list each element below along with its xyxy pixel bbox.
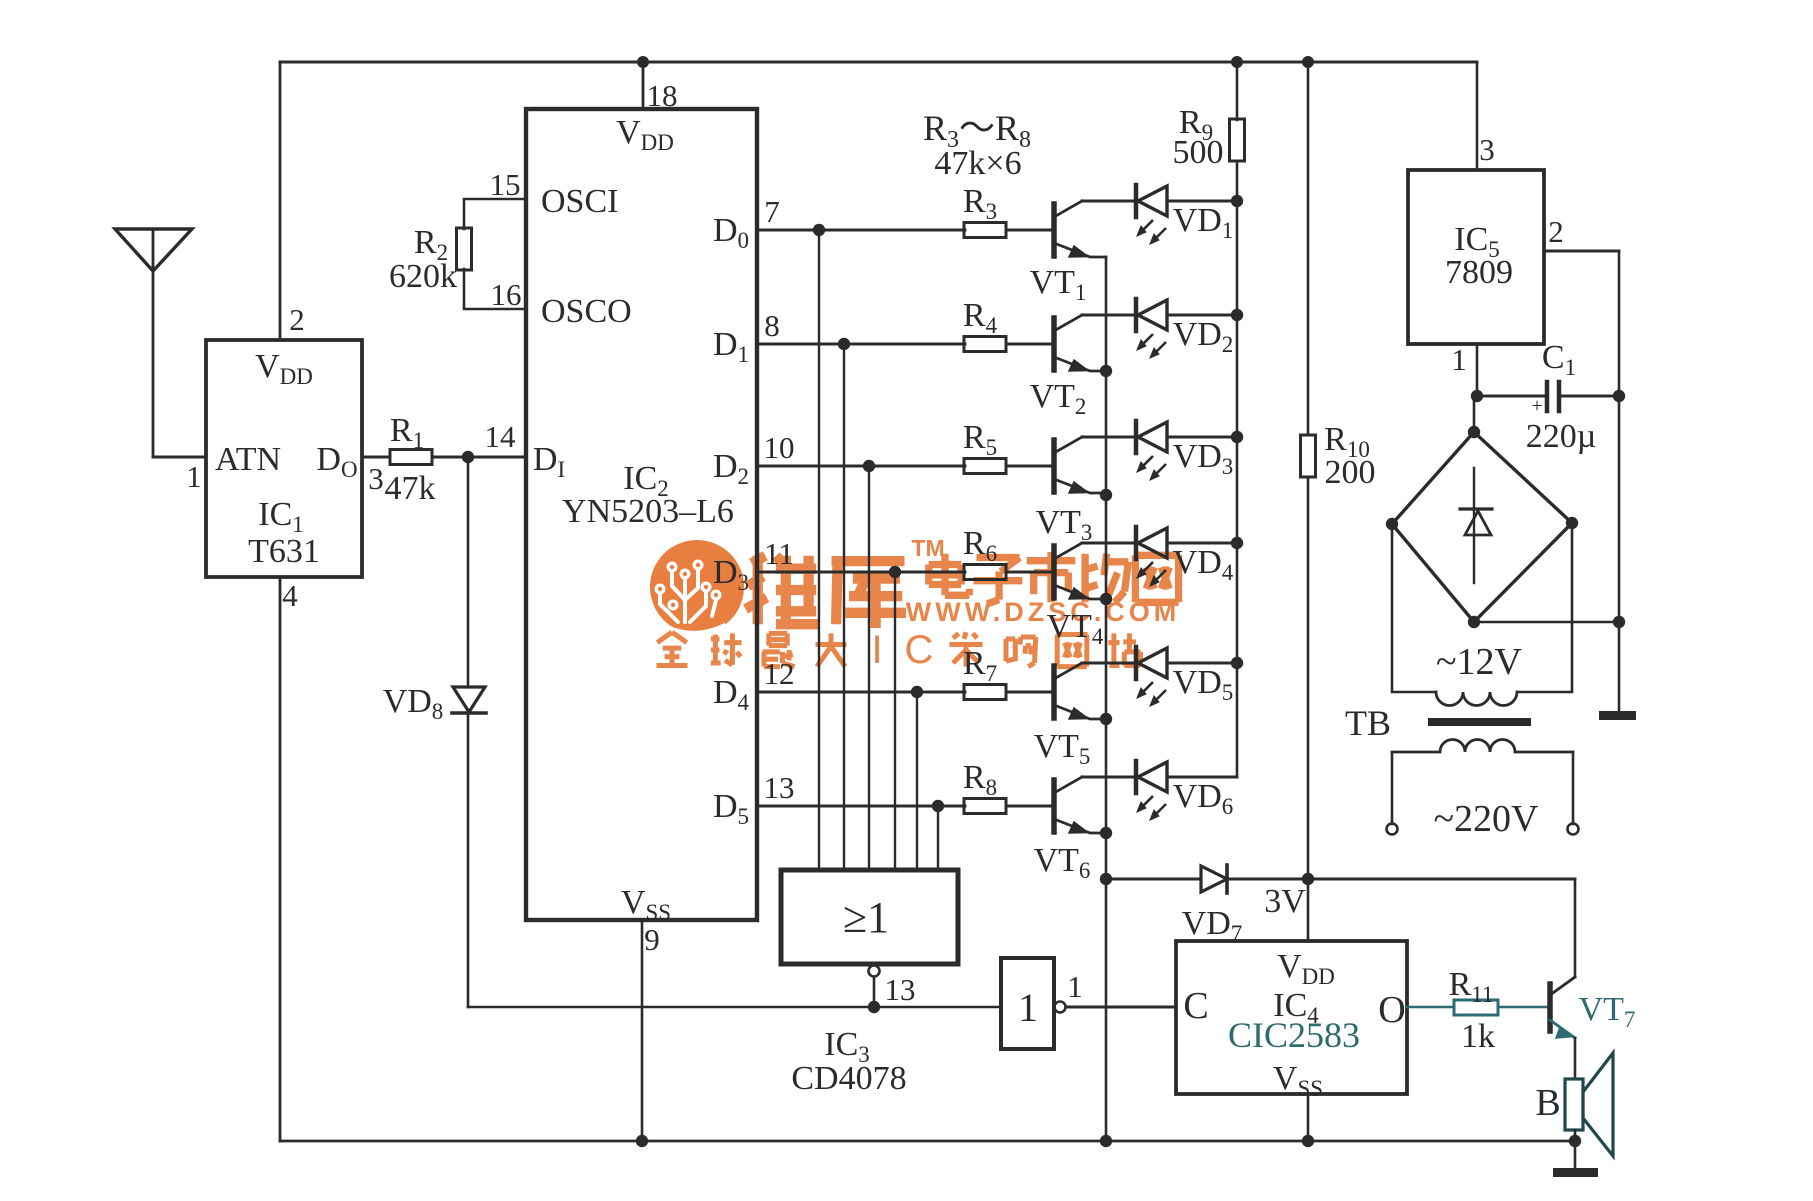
- node IC5 pin1 / C1: [1471, 390, 1483, 402]
- LED VD2: [1082, 314, 1133, 317]
- svg-text:18: 18: [647, 78, 678, 113]
- wire OSCI loop: [464, 199, 526, 309]
- IC1 T631 box: [206, 340, 362, 577]
- svg-text:WWW.DZSC.COM: WWW.DZSC.COM: [906, 597, 1180, 627]
- wire D4 to R7: [757, 691, 965, 694]
- wire speaker to bottom rail and ground: [1574, 1130, 1577, 1168]
- node C1 right / right rail: [1613, 390, 1625, 402]
- primary terminal right: [1568, 824, 1579, 835]
- diode VD8: [453, 687, 485, 712]
- transformer secondary coil ~12V: [1436, 692, 1517, 706]
- svg-text:16: 16: [491, 277, 522, 312]
- svg-text:220µ: 220µ: [1526, 418, 1597, 455]
- wire R4 to VT2 base: [1006, 343, 1052, 346]
- capacitor C1: [1477, 395, 1545, 398]
- wire VD8 to gate input line: [467, 713, 470, 1007]
- svg-text:3: 3: [1479, 132, 1495, 167]
- wire VD7 to VT7 collector net: [1227, 878, 1575, 881]
- svg-text:13: 13: [764, 770, 795, 805]
- svg-text:OSCI: OSCI: [541, 183, 618, 220]
- node bottom rail / emitter rail: [1100, 1135, 1112, 1147]
- node ground rail: [1613, 616, 1625, 628]
- svg-text:C: C: [905, 628, 934, 672]
- wire R10 to 3V line: [1307, 477, 1310, 879]
- LED VD5: [1082, 662, 1133, 665]
- svg-text:CD4078: CD4078: [791, 1060, 906, 1097]
- svg-text:~220V: ~220V: [1433, 798, 1539, 840]
- wire IC1 pin2 VDD riser: [279, 62, 282, 340]
- wire R7 to VT5 base: [1006, 691, 1052, 694]
- wire D4 drop to OR gate: [916, 692, 918, 870]
- svg-text:YN5203–L6: YN5203–L6: [562, 493, 734, 530]
- svg-text:~12V: ~12V: [1436, 641, 1523, 683]
- wire IC4 O to R11: [1407, 1006, 1454, 1009]
- svg-text:15: 15: [490, 167, 521, 202]
- svg-text:C: C: [1183, 985, 1208, 1027]
- node bridge top: [1468, 426, 1480, 438]
- wire R1 to IC2 D_I pin 14: [432, 456, 526, 459]
- transformer core: [1428, 718, 1531, 726]
- svg-text:+: +: [1531, 395, 1542, 417]
- transistor VT1: [1051, 204, 1057, 256]
- wire D5 drop to OR gate: [937, 806, 939, 870]
- resistor R11: [1454, 1000, 1498, 1015]
- resistor R9: [1230, 119, 1245, 161]
- wire right rail: [1618, 251, 1621, 712]
- svg-text:ATN: ATN: [215, 441, 281, 478]
- wire D0 to R3: [757, 229, 965, 232]
- wire D3 to R6: [757, 571, 965, 574]
- wire D1 to R4: [757, 343, 965, 346]
- svg-text:47k×6: 47k×6: [934, 145, 1021, 182]
- svg-text:10: 10: [764, 430, 795, 465]
- node R9 rail / LED: [1231, 537, 1243, 549]
- node R9 rail / LED: [1231, 309, 1243, 321]
- emitter rail wire: [1105, 257, 1108, 1141]
- wire inverter output to IC4 C: [1066, 1006, 1176, 1009]
- wire VT7 collector riser: [1574, 879, 1577, 977]
- svg-text:7809: 7809: [1445, 254, 1513, 291]
- svg-text:14: 14: [485, 419, 517, 454]
- transistor VT5: [1051, 666, 1057, 718]
- node emitter rail: [1100, 593, 1112, 605]
- node top rail / IC2 pin 18: [637, 56, 649, 68]
- svg-text:3: 3: [368, 461, 384, 496]
- node D2 branch: [863, 460, 875, 472]
- inverter gate box: [1001, 958, 1054, 1049]
- svg-text:TM: TM: [911, 535, 944, 561]
- svg-text:3V: 3V: [1264, 883, 1306, 920]
- wire R8 to VT6 base: [1006, 805, 1052, 808]
- OR gate output bubble: [869, 966, 880, 977]
- node top rail / R9: [1231, 56, 1243, 68]
- svg-text:CIC2583: CIC2583: [1228, 1015, 1360, 1055]
- resistor R8: [964, 799, 1006, 814]
- LED VD1: [1082, 200, 1133, 203]
- wire D0 drop to OR gate: [818, 230, 820, 870]
- node D1 branch: [838, 338, 850, 350]
- resistor R5: [964, 459, 1006, 474]
- svg-text:1k: 1k: [1461, 1018, 1495, 1055]
- node R9 rail / LED: [1231, 657, 1243, 669]
- svg-text:200: 200: [1325, 454, 1376, 491]
- node R9 rail / LED: [1231, 431, 1243, 443]
- node bridge right: [1566, 517, 1578, 529]
- transistor VT6: [1051, 780, 1057, 832]
- node bridge bottom: [1468, 616, 1480, 628]
- wire IC2 pin9 VSS to bottom rail: [641, 920, 644, 1141]
- wire IC5 pin3 stub: [1476, 62, 1479, 170]
- node bottom rail / IC2 VSS: [636, 1135, 648, 1147]
- svg-text:T631: T631: [248, 533, 320, 570]
- svg-text:47k: 47k: [385, 470, 436, 507]
- svg-text:2: 2: [289, 302, 305, 337]
- node bottom rail / speaker: [1569, 1135, 1581, 1147]
- bridge internal diode: [1473, 468, 1475, 583]
- wire VD8 branch down: [467, 457, 470, 686]
- svg-text:4: 4: [282, 578, 298, 613]
- transformer primary lead left: [1391, 752, 1394, 824]
- watermark logo and text: [657, 535, 1181, 672]
- OR gate IC3 CD4078 box: [781, 870, 958, 964]
- wire R5 to VT3 base: [1006, 465, 1052, 468]
- IC5 7809 box: [1408, 170, 1544, 344]
- wire D5 to R8: [757, 805, 965, 808]
- LED VD6: [1082, 776, 1133, 779]
- node R1/VD8 junction: [462, 451, 474, 463]
- svg-text:O: O: [1378, 989, 1405, 1031]
- node D4 branch: [911, 686, 923, 698]
- ground bottom right: [1553, 1168, 1598, 1177]
- wire antenna to IC1 pin 1: [153, 456, 206, 459]
- wire IC1 DO to R1: [362, 456, 390, 459]
- resistor R3: [964, 223, 1006, 238]
- transformer primary lead right: [1572, 752, 1575, 824]
- IC2 YN5203-L6 box: [526, 109, 757, 920]
- wire IC1 pin4 to bottom rail: [279, 577, 282, 1141]
- wire R9 to LED anodes: [1236, 161, 1239, 777]
- node emitter rail: [1100, 873, 1112, 885]
- svg-text:1: 1: [186, 459, 202, 494]
- transformer primary coil ~220V: [1392, 740, 1573, 753]
- node R9 rail / LED: [1231, 195, 1243, 207]
- wire VT7 emitter to speaker: [1574, 1038, 1577, 1079]
- node emitter rail: [1100, 365, 1112, 377]
- svg-text:1: 1: [1451, 342, 1467, 377]
- resistor R10: [1301, 435, 1316, 477]
- svg-text:1: 1: [1018, 985, 1038, 1030]
- wire R6 to VT4 base: [1006, 571, 1052, 574]
- svg-text:TB: TB: [1345, 703, 1391, 743]
- resistor R2: [457, 228, 472, 270]
- wire top VDD rail: [280, 61, 1477, 64]
- svg-text:500: 500: [1173, 134, 1224, 171]
- svg-text:9: 9: [644, 922, 660, 957]
- wire OR output stem: [873, 977, 876, 1007]
- resistor R6: [964, 565, 1006, 580]
- wire IC4 VDD stub: [1307, 879, 1310, 941]
- transistor VT7: [1547, 984, 1553, 1031]
- bridge rectifier diamond: [1392, 432, 1572, 622]
- resistor R4: [964, 337, 1006, 352]
- inverter output bubble: [1055, 1002, 1066, 1013]
- node OR output junction: [868, 1001, 880, 1013]
- svg-text:I: I: [871, 628, 882, 672]
- svg-text:7: 7: [764, 194, 780, 229]
- resistor R7: [964, 685, 1006, 700]
- node emitter rail: [1100, 713, 1112, 725]
- svg-text:620k: 620k: [389, 258, 457, 295]
- wire IC2 pin18 stub: [642, 62, 645, 109]
- svg-text:11: 11: [764, 536, 794, 571]
- transformer TB secondary lead left: [1392, 524, 1436, 692]
- transistor VT2: [1051, 318, 1057, 370]
- wire D1 drop to OR gate: [843, 344, 845, 870]
- wire bottom rail: [280, 1140, 1575, 1143]
- LED VD3: [1082, 436, 1133, 439]
- speaker B: [1565, 1079, 1583, 1130]
- wire bridge top stub: [1473, 396, 1476, 432]
- IC4 CIC2583 box: [1176, 941, 1407, 1094]
- node D0 branch: [813, 224, 825, 236]
- node emitter rail: [1100, 489, 1112, 501]
- LED VD4: [1082, 542, 1133, 545]
- wire R10 rail: [1307, 62, 1310, 435]
- svg-text:13: 13: [885, 972, 916, 1007]
- wire R3 to VT1 base: [1006, 229, 1052, 232]
- wire bridge bottom to ground rail: [1474, 621, 1619, 624]
- wire IC4 VSS to bottom rail: [1307, 1094, 1310, 1141]
- svg-text:B: B: [1535, 1082, 1560, 1124]
- svg-text:12: 12: [764, 656, 795, 691]
- transistor VT4: [1051, 546, 1057, 598]
- wire D2 drop to OR gate: [868, 466, 870, 870]
- wire IC5 pin1 to C1 node: [1476, 344, 1479, 396]
- wire IC5 pin2 to right rail: [1544, 250, 1619, 253]
- ground right: [1599, 711, 1636, 720]
- node bridge left: [1386, 518, 1398, 530]
- resistor R1: [390, 450, 432, 465]
- node bottom rail / IC4 VSS: [1302, 1135, 1314, 1147]
- primary terminal left: [1387, 824, 1398, 835]
- svg-text:2: 2: [1548, 214, 1564, 249]
- wire D3 drop to OR gate: [894, 572, 896, 870]
- antenna: [115, 229, 192, 271]
- node D5 branch: [932, 800, 944, 812]
- node D3 branch: [889, 566, 901, 578]
- transistor VT3: [1051, 440, 1057, 492]
- diode VD7: [1201, 866, 1227, 892]
- svg-text:OSCO: OSCO: [541, 293, 632, 330]
- node top rail / R10: [1302, 56, 1314, 68]
- wire R11 to VT7 base: [1498, 1006, 1548, 1009]
- wire R9 rail: [1236, 62, 1239, 120]
- svg-text:1: 1: [1067, 969, 1083, 1004]
- svg-text:≥1: ≥1: [843, 893, 889, 942]
- wire D2 to R5: [757, 465, 965, 468]
- wire 3V line from emitter rail: [1106, 878, 1201, 881]
- node 3V line / R10 and IC4 VDD: [1302, 873, 1314, 885]
- node emitter rail: [1100, 827, 1112, 839]
- svg-text:8: 8: [764, 308, 780, 343]
- transformer secondary lead right: [1517, 523, 1572, 692]
